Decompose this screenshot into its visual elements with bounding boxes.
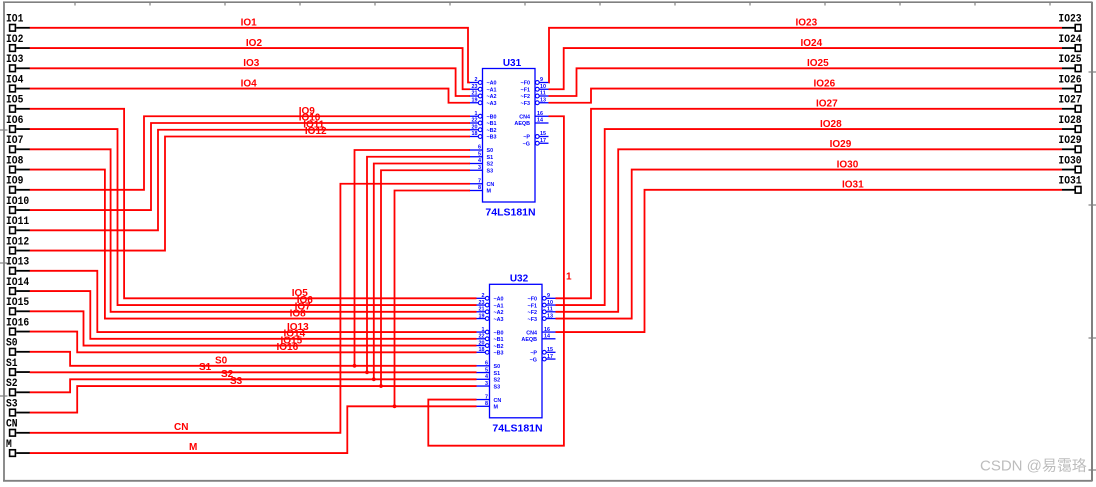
svg-text:19: 19 [472,97,478,103]
svg-text:~B2: ~B2 [487,128,497,134]
svg-text:~G: ~G [523,141,530,147]
pin 5 (S1) of U31 [469,151,493,161]
net label IO5 [292,288,309,299]
pin 20 (~B2) of U31 [469,124,497,134]
port connector IO2 [6,34,30,51]
svg-text:22: 22 [479,334,485,340]
svg-text:11: 11 [540,91,546,97]
wire net IO4: port IO4 to U31 pin ~A3 [30,89,470,103]
pin 1 (~B0) of U31 [469,111,497,121]
svg-text:4: 4 [485,374,488,380]
svg-text:74LS181N: 74LS181N [485,207,535,219]
svg-text:~F3: ~F3 [521,101,530,107]
svg-text:IO2: IO2 [246,38,263,49]
svg-text:IO16: IO16 [277,342,299,353]
svg-text:S2: S2 [487,162,494,168]
svg-text:7: 7 [478,178,481,184]
wire net IO3: port IO3 to U31 pin ~A2 [30,68,470,96]
pin 22 (~B1) of U32 [476,334,504,344]
svg-text:IO4: IO4 [241,78,258,89]
pin 11 (~F2) of U31 [521,91,549,101]
port connector IO16 [6,317,30,334]
value label 74LS181N of U31 [485,207,535,219]
svg-text:IO29: IO29 [830,139,852,150]
pin 21 (~A2) of U32 [476,307,504,317]
port connector IO1 [6,14,30,31]
wire net IO23: U31 pin ~F0 to port IO23 [549,28,1063,83]
svg-text:18: 18 [472,131,478,137]
svg-text:~P: ~P [530,351,537,357]
watermark text CSDN [980,458,1087,475]
pin 13 (~F3) of U31 [521,97,549,107]
pin 22 (~B1) of U31 [469,118,497,128]
wire net IO28: U32 pin ~F1 to port IO28 [556,129,1063,305]
svg-text:IO3: IO3 [243,58,260,69]
pin 2 (~A0) of U32 [476,293,504,303]
pin 6 (S0) of U31 [469,145,493,155]
pin 6 (S0) of U32 [476,361,500,371]
svg-text:~B0: ~B0 [494,330,504,336]
wire net IO15: port IO15 to U32 pin ~B2 [30,311,477,345]
net label S3 [230,376,243,387]
net label IO12 [305,126,327,137]
svg-text:CSDN @易霭珞: CSDN @易霭珞 [980,458,1087,475]
svg-text:~P: ~P [523,135,530,141]
wire net IO26: U31 pin ~F3 to port IO26 [549,89,1063,103]
port connector IO8 [6,155,30,172]
port connector IO24 [1058,34,1082,51]
svg-text:IO1: IO1 [241,18,258,29]
pin 15 (~P) of U32 [530,347,555,357]
pin 2 (~A0) of U31 [469,77,497,87]
svg-text:S0: S0 [494,364,501,370]
svg-text:S2: S2 [494,378,501,384]
svg-text:1: 1 [482,327,485,333]
port connector IO11 [6,216,30,233]
svg-text:AEQB: AEQB [521,337,537,343]
net label IO29 [830,139,852,150]
svg-text:21: 21 [479,307,485,313]
pin 20 (~B2) of U32 [476,340,504,350]
svg-text:20: 20 [472,124,478,130]
wire net IO8: port IO8 to U32 pin ~A3 [30,170,477,319]
svg-text:~B1: ~B1 [494,337,504,343]
svg-text:6: 6 [485,361,488,367]
svg-text:~F0: ~F0 [521,81,530,87]
svg-text:~A1: ~A1 [487,87,497,93]
net label IO2 [246,38,263,49]
svg-text:15: 15 [540,131,546,137]
svg-text:~F1: ~F1 [528,303,537,309]
svg-text:10: 10 [540,84,546,90]
svg-text:CN: CN [487,182,495,188]
net label IO14 [284,329,306,340]
port connector IO12 [6,236,30,253]
pin 8 (M) of U31 [469,185,492,195]
pin 17 (~G) of U32 [530,354,556,364]
port connector IO31 [1058,176,1082,193]
svg-text:17: 17 [547,354,553,360]
pin 1 (~B0) of U32 [476,327,504,337]
net label IO8 [290,308,307,319]
svg-text:S1: S1 [199,362,212,373]
wire net IO1: port IO1 to U31 pin ~A0 [30,28,470,83]
pin 19 (~A3) of U32 [476,313,504,323]
net label IO13 [287,322,309,333]
svg-text:~A3: ~A3 [494,317,504,323]
net label IO3 [243,58,260,69]
svg-text:~A2: ~A2 [487,94,497,100]
svg-text:1: 1 [566,272,572,283]
wire net IO14: port IO14 to U32 pin ~B1 [30,291,477,339]
svg-text:S0: S0 [215,356,228,367]
net label S0 [215,356,228,367]
net label IO27 [816,99,838,110]
svg-text:11: 11 [547,307,553,313]
wire net IO11: port IO11 to U31 pin ~B2 [30,130,470,231]
net label IO26 [814,78,836,89]
svg-text:~A0: ~A0 [487,81,497,87]
pin 14 (AEQB) of U32 [521,334,555,344]
svg-text:S0: S0 [487,148,494,154]
svg-text:~A2: ~A2 [494,310,504,316]
port connector S1 [6,358,30,375]
wire net IO27: U32 pin ~F0 to port IO27 [556,109,1063,298]
wire net IO10: port IO10 to U31 pin ~B1 [30,123,470,210]
pin 9 (~F0) of U32 [528,293,556,303]
port connector IO15 [6,297,30,314]
svg-text:IO25: IO25 [807,58,829,69]
net label IO30 [837,159,859,170]
svg-text:S1: S1 [487,155,494,161]
svg-text:S3: S3 [494,384,501,390]
svg-text:IO30: IO30 [837,159,859,170]
svg-text:M: M [487,189,492,195]
pin 5 (S1) of U32 [476,367,500,377]
port connector CN [6,419,30,436]
port connector S3 [6,398,30,415]
svg-text:CN4: CN4 [519,114,530,120]
svg-text:AEQB: AEQB [514,121,530,127]
pin 21 (~A2) of U31 [469,91,497,101]
reference designator label U32 [510,274,529,285]
svg-text:18: 18 [479,347,485,353]
port connector S0 [6,338,30,355]
svg-text:20: 20 [479,340,485,346]
wire net IO30: U32 pin ~F3 to port IO30 [556,170,1063,319]
pin 16 (CN4) of U31 [519,111,548,121]
svg-text:S3: S3 [487,168,494,174]
svg-text:IO28: IO28 [820,119,842,130]
wire net IO13: port IO13 to U32 pin ~B0 [30,271,477,332]
port connector IO13 [6,257,30,274]
wire net IO7: port IO7 to U32 pin ~A2 [30,149,477,311]
port connector M [6,439,30,456]
svg-text:M: M [189,442,197,453]
svg-text:16: 16 [537,111,543,117]
pin 10 (~F1) of U32 [528,300,556,310]
svg-text:2: 2 [475,77,478,83]
net label IO9 [299,106,316,117]
pin 4 (S2) of U31 [469,158,493,168]
port connector IO9 [6,176,30,193]
svg-text:14: 14 [537,118,543,124]
net label IO24 [801,38,823,49]
svg-text:21: 21 [472,91,478,97]
wire net IO25: U31 pin ~F2 to port IO25 [549,68,1063,96]
net label IO4 [241,78,258,89]
svg-text:CN4: CN4 [526,330,537,336]
wire net IO2: port IO2 to U31 pin ~A1 [30,48,470,89]
net label S1 [199,362,212,373]
svg-text:~G: ~G [530,357,537,363]
pin 18 (~B3) of U32 [476,347,504,357]
value label 74LS181N of U32 [492,422,542,434]
svg-text:~F3: ~F3 [528,317,537,323]
svg-text:3: 3 [478,165,481,171]
svg-text:~B2: ~B2 [494,344,504,350]
net label S2 [221,369,234,380]
net label 1 [566,272,572,283]
port connector IO14 [6,277,30,294]
port connector IO6 [6,115,30,132]
svg-text:13: 13 [540,97,546,103]
svg-text:CN: CN [494,398,502,404]
svg-text:IO24: IO24 [801,38,823,49]
pin 23 (~A1) of U31 [469,84,497,94]
wire net IO24: U31 pin ~F1 to port IO24 [549,48,1063,89]
svg-text:14: 14 [544,334,550,340]
pin 15 (~P) of U31 [523,131,548,141]
wire net IO6: port IO6 to U32 pin ~A1 [30,129,477,305]
svg-text:~A0: ~A0 [494,297,504,303]
pin 18 (~B3) of U31 [469,131,497,141]
svg-text:U31: U31 [503,58,522,69]
svg-text:IO26: IO26 [814,78,836,89]
pin 3 (S3) of U31 [469,165,493,175]
svg-text:S3: S3 [230,376,243,387]
net label M [189,442,197,453]
svg-text:~B3: ~B3 [487,135,497,141]
svg-text:13: 13 [547,313,553,319]
wire net IO16: port IO16 to U32 pin ~B3 [30,332,477,353]
svg-text:23: 23 [472,84,478,90]
wire net M: port M to U32 pin M and branch to U31 pin M [30,191,477,454]
svg-text:IO12: IO12 [305,126,327,137]
port connector IO30 [1058,155,1081,172]
pin 9 (~F0) of U31 [521,77,549,87]
pin 4 (S2) of U32 [476,374,500,384]
svg-text:~B3: ~B3 [494,351,504,357]
pin 17 (~G) of U31 [523,138,549,148]
svg-text:M: M [494,405,499,411]
svg-text:19: 19 [479,313,485,319]
port connector IO7 [6,135,30,152]
port connector IO23 [1058,14,1082,31]
reference designator label U31 [503,58,522,69]
svg-text:6: 6 [478,145,481,151]
port connector IO26 [1058,74,1081,91]
wire net IO12: port IO12 to U31 pin ~B3 [30,137,470,251]
svg-text:3: 3 [485,381,488,387]
svg-text:U32: U32 [510,274,529,285]
svg-text:~B0: ~B0 [487,114,497,120]
svg-text:15: 15 [547,347,553,353]
wire net IO9: port IO9 to U31 pin ~B0 [30,116,470,190]
port connector IO3 [6,54,30,71]
svg-text:CN: CN [174,422,188,433]
svg-text:8: 8 [485,401,488,407]
port connector S2 [6,378,30,395]
pin 7 (CN) of U31 [469,178,494,188]
net label IO31 [842,180,864,191]
svg-text:1: 1 [475,111,478,117]
wire net CN: port CN to U31 pin CN [30,184,470,433]
port connector IO10 [6,196,30,213]
svg-text:IO27: IO27 [816,99,838,110]
svg-text:~B1: ~B1 [487,121,497,127]
pin 16 (CN4) of U32 [526,327,555,337]
svg-text:IO31: IO31 [842,180,864,191]
svg-text:22: 22 [472,118,478,124]
pin 13 (~F3) of U32 [528,313,556,323]
svg-text:~F0: ~F0 [528,297,537,303]
svg-text:S1: S1 [494,371,501,377]
svg-text:IO8: IO8 [290,308,307,319]
pin 3 (S3) of U32 [476,381,500,391]
svg-text:9: 9 [547,293,550,299]
net label IO16 [277,342,299,353]
port connector IO28 [1058,115,1082,132]
port connector IO25 [1058,54,1082,71]
svg-text:IO23: IO23 [796,18,818,29]
svg-text:~A1: ~A1 [494,303,504,309]
pin 23 (~A1) of U32 [476,300,504,310]
net label CN [174,422,188,433]
op-amp substitute: ALU IC U32 74LS181N body [490,284,543,418]
wire net IO29: U32 pin ~F2 to port IO29 [556,149,1063,311]
svg-text:~F2: ~F2 [521,94,530,100]
pin 7 (CN) of U32 [476,394,501,404]
net label IO25 [807,58,829,69]
svg-text:5: 5 [478,151,481,157]
svg-text:74LS181N: 74LS181N [492,422,542,434]
net label IO11 [303,119,325,130]
svg-text:~F1: ~F1 [521,87,530,93]
net label IO28 [820,119,842,130]
svg-text:16: 16 [544,327,550,333]
svg-text:2: 2 [482,293,485,299]
pin 11 (~F2) of U32 [528,307,556,317]
svg-text:4: 4 [478,158,481,164]
port connector IO29 [1058,135,1081,152]
net label IO10 [299,113,321,124]
pin 10 (~F1) of U31 [521,84,549,94]
wire net S1: port S1 to U32 pin S1 and branch to U31 pin S1 [30,157,477,374]
wire net 1: U31 pin CN4 (carry out) to U32 pin CN [428,116,564,445]
net label IO15 [281,335,303,346]
net label IO7 [295,302,312,313]
svg-text:~F2: ~F2 [528,310,537,316]
op-amp substitute: ALU IC U31 74LS181N body [483,69,536,203]
port connector IO27 [1058,95,1081,112]
svg-text:8: 8 [478,185,481,191]
port connector IO4 [6,74,30,91]
svg-text:23: 23 [479,300,485,306]
wire net S0: port S0 to U32 pin S0 and branch to U31 pin S0 [30,150,477,368]
svg-text:10: 10 [547,300,553,306]
svg-text:9: 9 [540,77,543,83]
pin 14 (AEQB) of U31 [514,118,548,128]
svg-text:7: 7 [485,394,488,400]
pin 19 (~A3) of U31 [469,97,497,107]
wire net S3: port S3 to U32 pin S3 and branch to U31 pin S3 [30,170,477,412]
wire net S2: port S2 to U32 pin S2 and branch to U31 pin S2 [30,164,477,393]
svg-text:17: 17 [540,138,546,144]
wire net IO31: U32 pin CN4 to port IO31 [556,190,1063,332]
wire net IO5: port IO5 to U32 pin ~A0 [30,109,477,298]
net label IO1 [241,18,258,29]
svg-text:5: 5 [485,367,488,373]
pin 8 (M) of U32 [476,401,499,411]
net label IO6 [297,295,314,306]
svg-text:~A3: ~A3 [487,101,497,107]
net label IO23 [796,18,818,29]
port connector IO5 [6,95,30,112]
